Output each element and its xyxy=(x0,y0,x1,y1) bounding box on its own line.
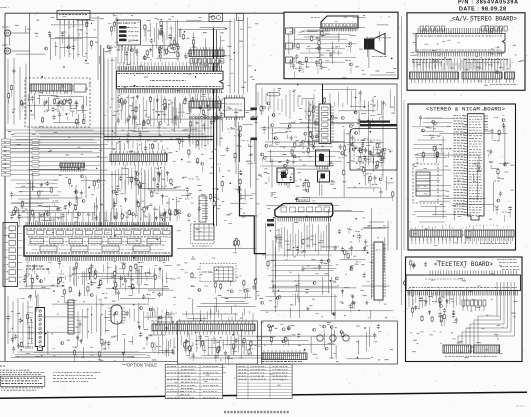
note text block A xyxy=(0,369,30,371)
speckle avboard xyxy=(512,61,514,64)
resistor cluster sub-board xyxy=(28,99,31,101)
wire main top border xyxy=(5,12,284,14)
wire lower-left horizontal rule xyxy=(0,360,177,362)
CN202 solder circles xyxy=(189,116,191,118)
resistor cluster lowbox left2 xyxy=(224,351,227,356)
label option note top xyxy=(262,361,302,363)
resistor cluster speaker box2 xyxy=(320,65,323,70)
wire bundle center top2 xyxy=(330,86,395,115)
IC201 center label xyxy=(150,80,186,82)
op-amp IC301 body xyxy=(275,204,333,218)
wire top mid net xyxy=(200,27,226,29)
speckle speaker box xyxy=(343,16,347,19)
connector comb vertical V2 xyxy=(68,300,74,334)
speckle av lower xyxy=(518,60,521,63)
speckle left-mid xyxy=(166,147,168,150)
wire below IC201 xyxy=(127,130,135,132)
transistor Q801 heatsink xyxy=(277,168,294,183)
resistor cluster nicam right xyxy=(489,162,493,164)
IC601 vertical xyxy=(319,104,331,144)
net tag blobs IC301 xyxy=(267,219,274,222)
resistor cluster lowbox right xyxy=(270,336,272,342)
grid box G1 xyxy=(194,224,214,240)
label IC803 GTPF98B4 xyxy=(357,127,359,129)
stereo nicam board box xyxy=(408,104,516,250)
resistor cluster left edge low xyxy=(17,344,20,349)
wire trunk bus D xyxy=(100,45,102,226)
resistor cluster nicam right2 xyxy=(489,149,492,154)
wire ttx routing xyxy=(478,282,497,344)
wire underIC501 xyxy=(164,264,171,266)
IC901 tall body xyxy=(468,114,485,220)
svg-text:***OPTION TABLE: ***OPTION TABLE xyxy=(122,363,157,368)
resistor cluster ttx mid2 xyxy=(441,316,443,322)
connector P101 xyxy=(57,11,90,20)
label corner top-left mark xyxy=(1,7,9,9)
resistor cluster nicam left xyxy=(429,134,434,136)
teletext board box xyxy=(406,257,523,362)
resistor cluster top mid2 xyxy=(135,49,138,54)
IC501 bottom pins xyxy=(26,256,168,261)
resistor cluster center b xyxy=(361,143,364,148)
svg-text:<STEREO & NICAM BOARD>: <STEREO & NICAM BOARD> xyxy=(426,106,506,113)
resistor array ttx xyxy=(462,300,465,306)
speckle lowbox xyxy=(292,333,296,336)
speckle under tuner xyxy=(130,355,134,358)
wire left-mid xyxy=(11,202,44,204)
crystal X201 rounded xyxy=(111,305,122,324)
resistor cluster ttx mid xyxy=(428,310,431,315)
resistor cluster y130-152 left xyxy=(181,138,184,143)
wire bundle center mid-h xyxy=(260,142,341,166)
filter F201 oval xyxy=(168,45,178,53)
label bottom CJK note xyxy=(224,411,226,414)
option table 2 grid xyxy=(237,366,292,368)
wire bundle IC301 down xyxy=(279,222,329,257)
wire top-left net xyxy=(55,37,97,39)
speckle nicam xyxy=(424,192,428,195)
resistor cluster x186-255 y120-200 xyxy=(188,214,191,217)
resistor cluster speaker left lower xyxy=(319,59,321,65)
note text line NOTE xyxy=(0,365,5,367)
speckle center mid-band xyxy=(274,196,277,199)
IC202 dip xyxy=(225,98,245,117)
wire CN601 leads xyxy=(18,226,23,277)
IC501 internal blocks xyxy=(27,231,34,235)
speckle band y130-155 xyxy=(77,146,80,149)
connector CN853 bar xyxy=(505,72,515,79)
resistor cluster dashedbox2 xyxy=(75,100,78,105)
note text block B xyxy=(1,387,43,389)
IC851 pin numbers xyxy=(417,35,502,37)
IC951 bottom pins xyxy=(408,291,517,296)
wire bundle CN202 up xyxy=(190,93,219,101)
sub-board dashed box xyxy=(25,78,90,127)
speckle option table xyxy=(171,388,173,391)
speckle band y272-295 xyxy=(226,270,229,273)
IC201 bottom pin numbers xyxy=(118,86,222,88)
wire bundle x104-116 tall xyxy=(104,57,116,146)
option table 1 grid xyxy=(165,366,222,368)
speaker board box xyxy=(284,12,398,79)
IC901 internal text xyxy=(469,116,482,118)
resistor cluster mid5 xyxy=(113,202,116,207)
wire bundle x230-252 xyxy=(230,17,248,95)
resistor cluster speaker box xyxy=(295,54,298,59)
speckle dashedbox xyxy=(57,110,60,113)
option table 2 frame xyxy=(237,364,292,398)
speckle global main xyxy=(327,323,329,326)
resistor cluster y300-320 x125-175 xyxy=(140,307,143,310)
IF unit box X101 xyxy=(117,20,141,45)
IC901 left pin labels xyxy=(454,115,465,117)
resistor cluster x140-188 y20-64 xyxy=(143,55,146,60)
antenna jack J1 xyxy=(4,30,10,36)
connector CN702 wide comb xyxy=(152,324,255,331)
resistor cluster x30-100 y185-222 b xyxy=(53,200,58,202)
wire tuner leads xyxy=(27,307,33,343)
label corner mark xyxy=(516,405,525,407)
speckle center column xyxy=(239,109,242,112)
wire lower right box xyxy=(262,321,398,364)
resistor cluster below IC501 c xyxy=(123,263,125,269)
relay RL801 xyxy=(209,14,223,22)
label FM1 text xyxy=(2,26,10,28)
resistor cluster far-left xyxy=(20,100,23,105)
resistor cluster band y272-295 xyxy=(191,286,195,288)
wire IF unit leads xyxy=(119,45,135,51)
resistor cluster center c xyxy=(267,261,269,267)
wire bundle ttx down xyxy=(409,288,467,309)
wire bundle left band y128-136 xyxy=(33,128,212,137)
option table 1 frame xyxy=(165,364,222,398)
wire IC201 top leads xyxy=(120,62,218,66)
resistor cluster center lower xyxy=(303,249,306,253)
note value-of-resistor text xyxy=(53,372,100,374)
svg-text:<A/V STEREO BOARD>: <A/V STEREO BOARD> xyxy=(452,16,517,23)
wire bundle comb702 up xyxy=(155,310,253,323)
wire trunk bus C2 xyxy=(239,130,241,162)
transistor Q803 heatsink xyxy=(318,171,330,182)
wire nicam bottom stubs xyxy=(412,237,511,244)
note bordered box xyxy=(0,376,45,386)
wire inner vertical bus xyxy=(29,13,31,224)
wire trunk into center xyxy=(322,84,324,104)
IC802 vertical xyxy=(374,242,383,300)
note box text rows xyxy=(2,377,42,379)
speckle center upper xyxy=(350,159,353,162)
wire bundle IC501 up xyxy=(30,205,164,223)
wire bundle left col y290-350 xyxy=(8,296,28,348)
speckle top-left xyxy=(203,31,207,34)
sub-board NICAM dashed xyxy=(413,164,438,203)
label ttx corner text xyxy=(497,259,517,261)
grid table MECA xyxy=(214,267,233,281)
label nicam corner text xyxy=(480,243,508,245)
IC201 top pin numbers xyxy=(118,73,222,75)
IC901 left pin stubs xyxy=(464,116,468,215)
wire bundle CN501 down xyxy=(112,164,165,195)
IC201 top pin comb xyxy=(118,66,221,71)
wire tuner area xyxy=(17,356,134,358)
label IC702 SAA5281 xyxy=(500,266,520,268)
op-amp IC801 audio amp xyxy=(321,16,358,28)
wire bundle IC501 down xyxy=(28,262,167,288)
IC851 bottom pins xyxy=(418,52,502,57)
wire bundle avboard mid xyxy=(414,58,510,71)
wire bundle IC201 bottom long xyxy=(118,95,183,127)
IC951 top pins xyxy=(430,271,516,276)
wire mid5 xyxy=(149,189,185,191)
resistor cluster below IC201 xyxy=(134,116,137,119)
speckle below IC201 xyxy=(227,106,231,109)
connector CN901 bar xyxy=(410,230,462,237)
wire comb CN502 pins xyxy=(61,167,83,172)
wire bundle nicam mid-h xyxy=(414,170,452,222)
transistor Q901 group xyxy=(317,335,323,341)
wire bundle below CN202 xyxy=(190,109,220,150)
wire far-left verticals xyxy=(8,58,26,125)
speckle center lower xyxy=(285,259,289,262)
resistor cluster underIC501 xyxy=(159,267,162,272)
connector CN902 bar xyxy=(465,230,514,237)
IC501 body xyxy=(24,226,172,256)
connector CN201 comb xyxy=(189,50,224,57)
wire bundle center top xyxy=(258,88,314,120)
wire bundle CN501 up xyxy=(112,140,162,153)
wire bottom thick border xyxy=(0,392,527,398)
resistor array RA801 xyxy=(420,26,424,31)
wire bundle nicam left xyxy=(412,118,452,158)
resistor cluster left-mid xyxy=(46,181,49,186)
IC851 top pins xyxy=(418,28,502,34)
label rows below IC851 xyxy=(412,59,451,61)
wire main left border xyxy=(4,13,6,361)
IC101 comb xyxy=(30,84,72,91)
wire bundle left bus3 xyxy=(11,180,59,210)
connector CN202 comb xyxy=(189,101,221,108)
connector CN851 bar xyxy=(410,72,459,79)
A/V stereo board box xyxy=(407,13,525,91)
speckle x186-255 xyxy=(197,178,200,181)
wire center net lower xyxy=(339,259,365,261)
label IC501 TDA8843 xyxy=(26,265,44,267)
wire trunk bus E xyxy=(97,16,99,80)
wire trunk bus A xyxy=(213,28,215,226)
label box IC301 xyxy=(297,198,310,202)
connector CN951 bar xyxy=(443,345,471,353)
wire lower left box xyxy=(178,321,258,364)
connector CN502 comb xyxy=(60,163,85,167)
junction dots xyxy=(96,168,97,169)
IC201 bottom pin comb xyxy=(118,89,221,94)
connector CN601 tall xyxy=(3,223,18,287)
resistor cluster center mid-band xyxy=(312,145,315,150)
IC501 mid text xyxy=(30,241,166,243)
scan noise speckle xyxy=(413,35,415,36)
resistor array RA201 xyxy=(190,59,193,64)
connector CN801 stubs xyxy=(286,28,293,34)
resistor cluster lowbox left xyxy=(250,348,255,350)
resistor pair x230-240 xyxy=(234,240,236,246)
wire bundle center-low h xyxy=(262,255,338,297)
wire bundle left bus2 xyxy=(5,130,103,152)
resistor cluster subboard right2 xyxy=(380,159,383,164)
resistor cluster center upper xyxy=(382,100,385,104)
label left bus tags xyxy=(32,139,39,141)
IC951 wide body xyxy=(406,275,521,291)
IC901 right stubs top xyxy=(484,116,488,130)
resistor cluster top strip extra xyxy=(144,24,146,30)
speckle below IC501 xyxy=(26,261,29,264)
wire bundle top mid verticals xyxy=(118,45,137,64)
dashed box MECA xyxy=(200,264,236,282)
stadium label center xyxy=(267,93,280,96)
resistor cluster center a xyxy=(286,131,291,133)
speckle ttx2 xyxy=(451,331,453,334)
resistor cluster sub-board right xyxy=(364,148,367,153)
speckle ttx xyxy=(453,321,457,324)
resistor cluster top-left xyxy=(67,46,70,49)
op-amp IC851 body xyxy=(416,34,505,53)
wire lowbox xyxy=(223,344,336,346)
resistor cluster mid-low xyxy=(170,178,172,184)
label av corner text xyxy=(490,84,518,86)
wire nicam net xyxy=(491,168,498,170)
wire bundle IC201 to combs xyxy=(190,57,221,66)
wire long y248 xyxy=(177,247,256,249)
wire bundle tuner-under xyxy=(11,352,147,358)
wire sub-board xyxy=(38,95,57,97)
wire IC501 top stubs xyxy=(28,212,166,226)
capacitor C805 xyxy=(237,14,244,21)
speckle tuner area xyxy=(173,327,175,330)
wire speaker box net xyxy=(350,34,356,36)
op-amp IC201 body xyxy=(117,71,224,89)
speckle top mid xyxy=(186,37,189,40)
wire trunk bus B xyxy=(216,30,218,226)
speckle boards extra xyxy=(495,71,499,74)
tuner TU201 xyxy=(35,308,44,351)
wire trunk bus C xyxy=(240,186,267,254)
wire bundle tuner right xyxy=(78,295,106,341)
connector CN703 bar xyxy=(262,353,307,360)
wire center net upper xyxy=(330,141,384,143)
resistor cluster y95-125 dense xyxy=(144,110,146,112)
speaker SP801 xyxy=(364,39,374,50)
speckle above IC501 xyxy=(100,204,104,207)
wire bundle speaker xyxy=(293,30,358,62)
speckle subboard right xyxy=(389,150,391,153)
IC501 top pins xyxy=(26,222,168,226)
svg-text:DATE : 98.09.28: DATE : 98.09.28 xyxy=(459,7,506,13)
wire bundle top closely xyxy=(146,21,180,43)
resistor cluster x110-177 y168-225 b xyxy=(169,209,171,215)
connector CN501 comb xyxy=(110,154,167,162)
dashed box G1 outer xyxy=(191,224,215,244)
resistor cluster mid-top xyxy=(149,48,152,52)
svg-text:P/N : 3854VA0539A: P/N : 3854VA0539A xyxy=(458,0,518,6)
net tags center left xyxy=(251,108,258,111)
wire left bus lines xyxy=(5,139,100,141)
wire bundle y300-360 x125-175 xyxy=(125,303,171,330)
antenna jack J2 xyxy=(4,48,10,54)
ladder comb vertical xyxy=(202,198,208,219)
speckle global main2 xyxy=(122,262,126,265)
label IC803 bold xyxy=(360,121,390,123)
connector CN852 bar xyxy=(462,72,502,79)
resistor cluster below IC501 b xyxy=(97,284,100,289)
wire bundle nicam bottom xyxy=(412,224,511,229)
resistor cluster tuner area xyxy=(78,322,81,327)
wire center column extra xyxy=(244,109,253,111)
wire center block border xyxy=(256,84,397,250)
resistor cluster left tags xyxy=(2,139,11,142)
wire bundle conn P101 down xyxy=(60,20,87,60)
wire right margin bus xyxy=(401,16,403,305)
label CN951 pins xyxy=(445,356,497,358)
wire double trunk y136 xyxy=(104,135,214,137)
resistor cluster ttx top xyxy=(410,260,412,266)
wire bundle comb702 down xyxy=(155,331,250,356)
transistor Q802 heatsink xyxy=(316,150,330,166)
sub-board box right xyxy=(350,129,397,171)
wire A/V board verticals xyxy=(414,58,510,71)
wire bundle band y295-318 xyxy=(197,305,256,307)
